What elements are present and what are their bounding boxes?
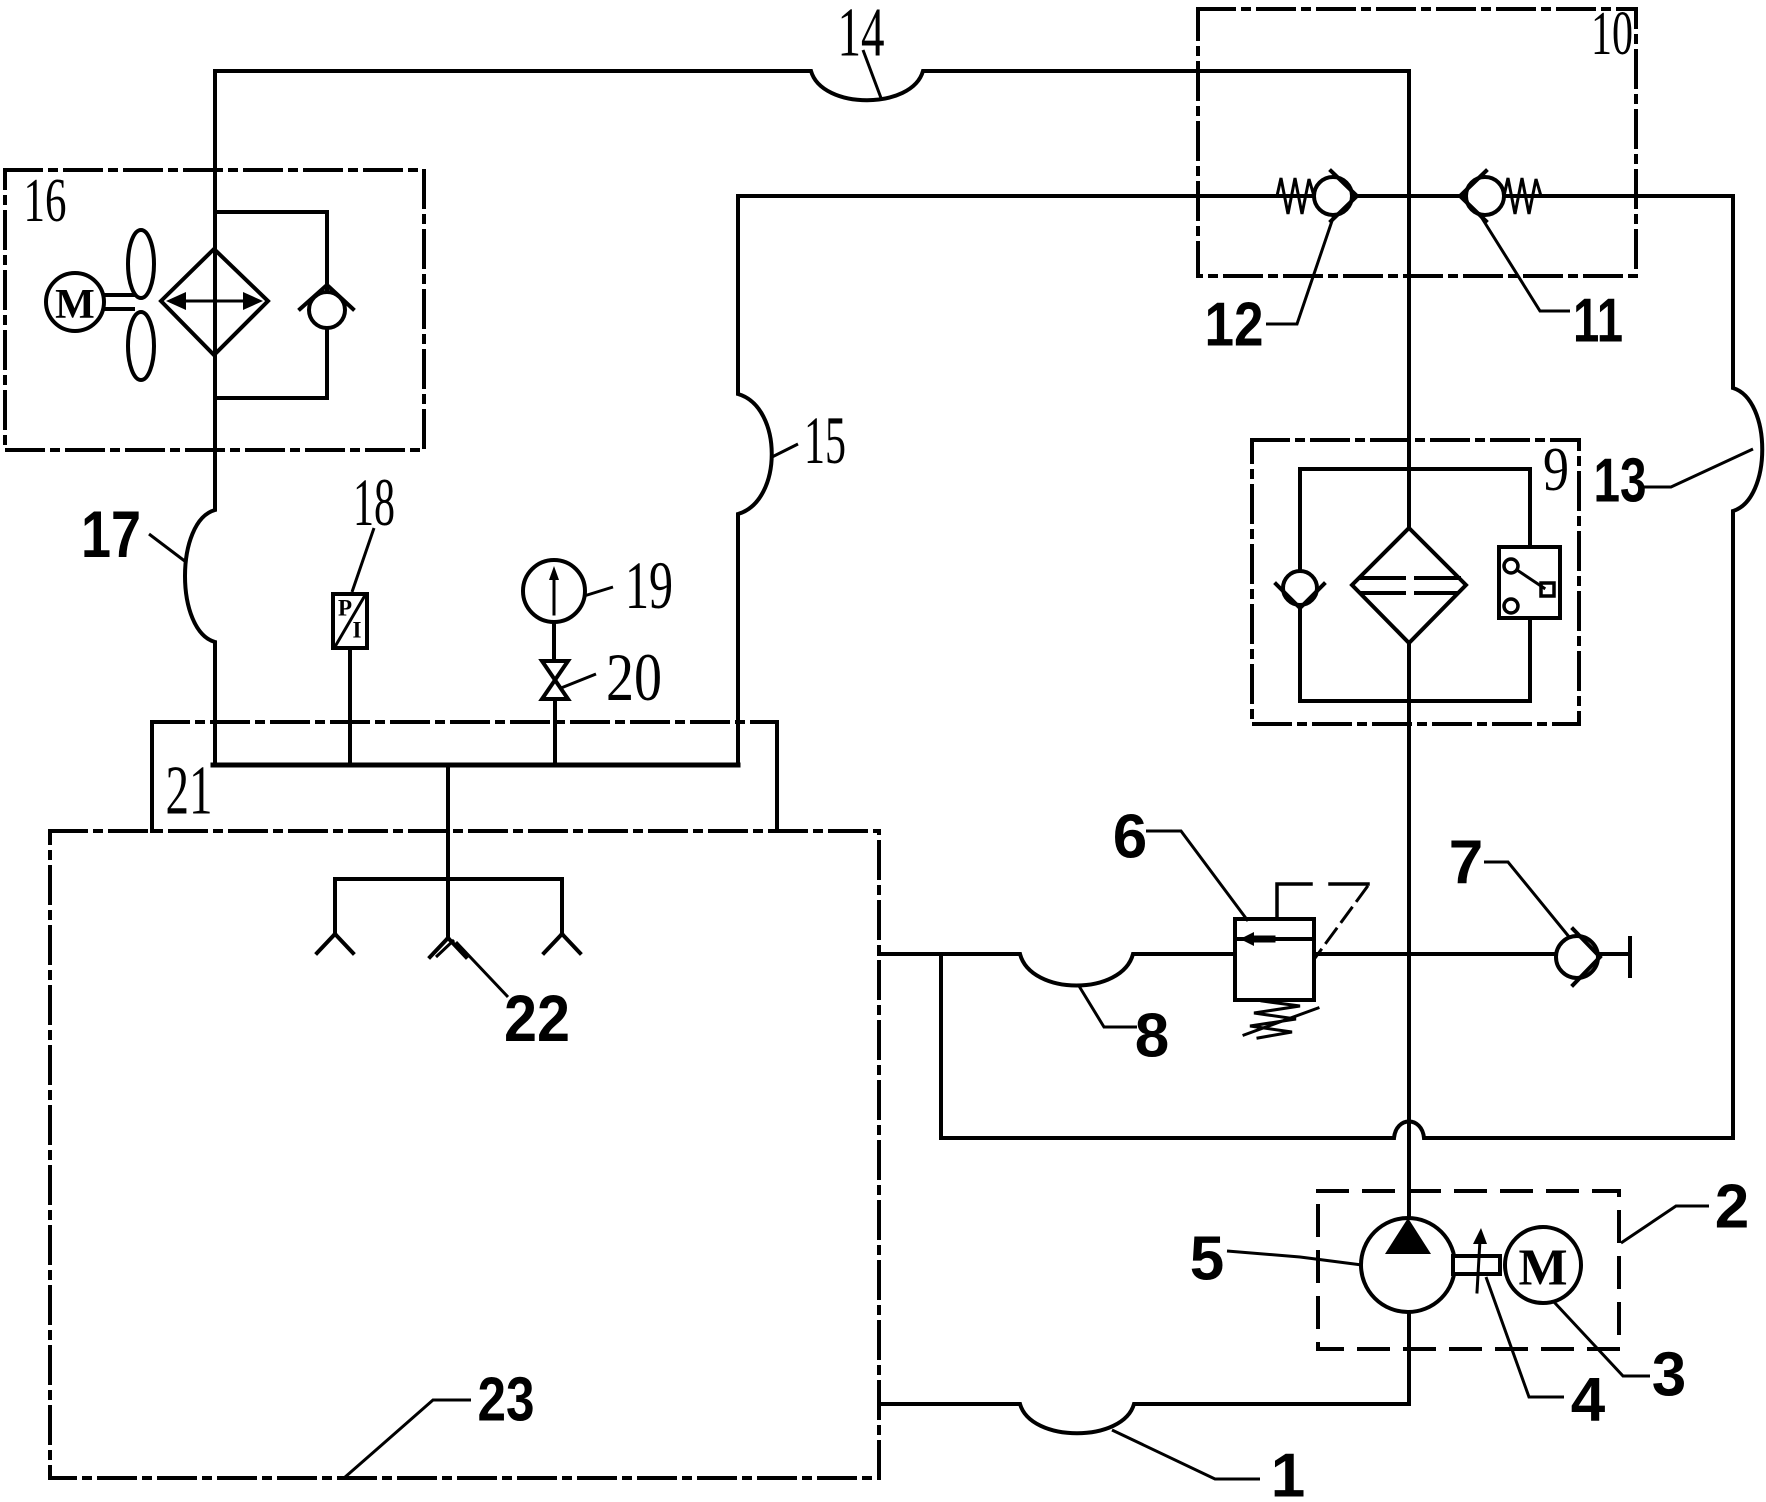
leader 1 bbox=[1112, 1430, 1260, 1479]
svg-text:11: 11 bbox=[1573, 287, 1623, 356]
leader 2 bbox=[1621, 1206, 1709, 1243]
leader 23 bbox=[344, 1400, 471, 1478]
wire 14: top pipe with bridge dip bbox=[215, 71, 1409, 100]
leader 17 bbox=[149, 534, 186, 562]
electric motor 3 bbox=[1505, 1227, 1581, 1303]
wire 8: suction pipe with bridge dip bbox=[879, 954, 1235, 986]
leader 18 bbox=[352, 528, 374, 592]
bypass check valve in unit 16 bbox=[300, 285, 353, 328]
plug termination bbox=[1628, 938, 1632, 976]
leader 22 bbox=[436, 940, 508, 997]
leader 19 bbox=[584, 587, 613, 596]
leader 14 bbox=[863, 50, 881, 98]
svg-text:10: 10 bbox=[1591, 0, 1633, 68]
svg-text:16: 16 bbox=[24, 167, 67, 235]
svg-text:P: P bbox=[338, 596, 352, 621]
check valve 7 bbox=[1556, 929, 1600, 985]
leader 12 bbox=[1266, 215, 1334, 324]
enclosure 21 top edge (dash-dot) bbox=[152, 720, 777, 724]
shutoff valve 20 bbox=[542, 661, 568, 699]
cooler diamond 16 bbox=[161, 249, 268, 355]
coupling 4 bbox=[1453, 1256, 1500, 1274]
filter diamond 9 bbox=[1352, 528, 1466, 643]
wire: cooler bypass loop in unit 16 bbox=[215, 212, 327, 398]
svg-text:9: 9 bbox=[1543, 436, 1569, 504]
leader 8 bbox=[1079, 986, 1137, 1027]
enclosure 10 (dash-dot) bbox=[1198, 9, 1636, 276]
wire 13: right riser with right bulge bbox=[1733, 196, 1762, 1138]
wire: pump outlet down bbox=[1407, 1312, 1411, 1404]
relief valve 6 spring bbox=[1244, 1001, 1318, 1038]
relief valve 6 dashed pilot diagonal bbox=[1315, 887, 1367, 958]
cooler double arrow bbox=[166, 292, 263, 310]
wire: transducer stem bbox=[348, 648, 352, 765]
clogging indicator switch 9 bbox=[1499, 547, 1560, 618]
leader 3 bbox=[1554, 1302, 1650, 1376]
leader 11 bbox=[1480, 215, 1570, 311]
svg-text:6: 6 bbox=[1113, 803, 1147, 872]
svg-text:M: M bbox=[1518, 1240, 1567, 1297]
enclosure 9 (dash-dot) bbox=[1252, 440, 1579, 724]
svg-text:19: 19 bbox=[625, 547, 673, 623]
svg-text:17: 17 bbox=[81, 497, 141, 571]
svg-text:18: 18 bbox=[353, 464, 395, 540]
check valve 12 spring bbox=[1277, 178, 1314, 214]
filter bypass check valve in 9 bbox=[1276, 571, 1324, 608]
fan blades bbox=[128, 230, 154, 298]
svg-text:23: 23 bbox=[478, 1366, 535, 1435]
relief valve 6 body bbox=[1235, 919, 1314, 1000]
svg-text:3: 3 bbox=[1652, 1341, 1686, 1410]
check valve 11 bbox=[1460, 171, 1504, 221]
leader 20 bbox=[561, 674, 596, 688]
filter block 9 inner frame bbox=[1300, 469, 1530, 701]
svg-text:21: 21 bbox=[166, 753, 213, 830]
leader 6 bbox=[1146, 831, 1248, 921]
wire 1: bottom pipe with bridge dip bbox=[879, 1404, 1409, 1433]
fan motor M in unit 16 bbox=[46, 273, 104, 331]
svg-text:12: 12 bbox=[1205, 291, 1264, 360]
pressure transducer 18 bbox=[333, 594, 367, 648]
enclosure 16 (dash-dot) bbox=[5, 170, 424, 450]
leader 5 bbox=[1227, 1251, 1362, 1265]
leader 13 bbox=[1642, 449, 1753, 487]
suction strainer left bbox=[317, 934, 353, 953]
fan shaft bbox=[104, 295, 133, 309]
wire: relief valve outlet to plug bbox=[1314, 952, 1630, 956]
svg-text:20: 20 bbox=[606, 639, 662, 715]
svg-text:2: 2 bbox=[1715, 1173, 1749, 1242]
wire: main vertical line bbox=[1407, 71, 1411, 1219]
wire 15: middle column with right bulge bbox=[738, 196, 772, 765]
svg-text:4: 4 bbox=[1571, 1366, 1606, 1435]
svg-text:5: 5 bbox=[1190, 1225, 1224, 1294]
suction strainer right bbox=[544, 934, 580, 953]
leader 7 bbox=[1484, 862, 1570, 938]
wire 17: left column with left bulge bbox=[185, 71, 215, 765]
svg-text:7: 7 bbox=[1449, 829, 1483, 898]
suction strainer 22 center bbox=[430, 938, 466, 957]
svg-text:14: 14 bbox=[838, 0, 885, 72]
svg-text:I: I bbox=[353, 618, 362, 643]
wire: suction header bbox=[335, 877, 562, 881]
svg-text:22: 22 bbox=[504, 981, 570, 1055]
wire: drop from suction pipe bbox=[939, 954, 943, 1138]
wire: left suction drop bbox=[333, 879, 337, 934]
gauge stem bbox=[552, 622, 556, 661]
tank 23 (dash-dot) bbox=[50, 831, 879, 1478]
svg-text:M: M bbox=[55, 282, 95, 328]
svg-text:13: 13 bbox=[1594, 447, 1647, 516]
enclosure 21 left edge bbox=[150, 722, 154, 831]
enclosure 21 right edge bbox=[775, 722, 779, 831]
relief valve 6 pilot line bbox=[1277, 884, 1311, 919]
wire: valve rail through valves 12 and 11 bbox=[738, 194, 1733, 198]
svg-text:15: 15 bbox=[804, 402, 846, 478]
wire: manifold bar 21 bbox=[213, 763, 738, 768]
wire: tank center drop bbox=[446, 765, 450, 938]
coupling variable arrow bbox=[1473, 1228, 1487, 1292]
wire: right suction drop bbox=[560, 879, 564, 934]
relief valve 6 drain arrow bar bbox=[1330, 882, 1368, 886]
wire: lower return run with jog over pump line bbox=[941, 1122, 1733, 1139]
pump unit 2 (dashed) bbox=[1318, 1191, 1619, 1349]
pump 5 bbox=[1361, 1218, 1455, 1312]
svg-text:8: 8 bbox=[1135, 1002, 1169, 1071]
check valve 11 spring bbox=[1504, 178, 1541, 214]
pressure gauge 19 bbox=[523, 560, 585, 622]
filter element lines bbox=[1360, 578, 1459, 593]
check valve 12 bbox=[1314, 171, 1357, 221]
wire: gauge/valve stem lower bbox=[553, 699, 557, 765]
svg-text:1: 1 bbox=[1271, 1442, 1305, 1502]
leader 4 bbox=[1486, 1277, 1564, 1397]
leader 15 bbox=[772, 444, 798, 457]
